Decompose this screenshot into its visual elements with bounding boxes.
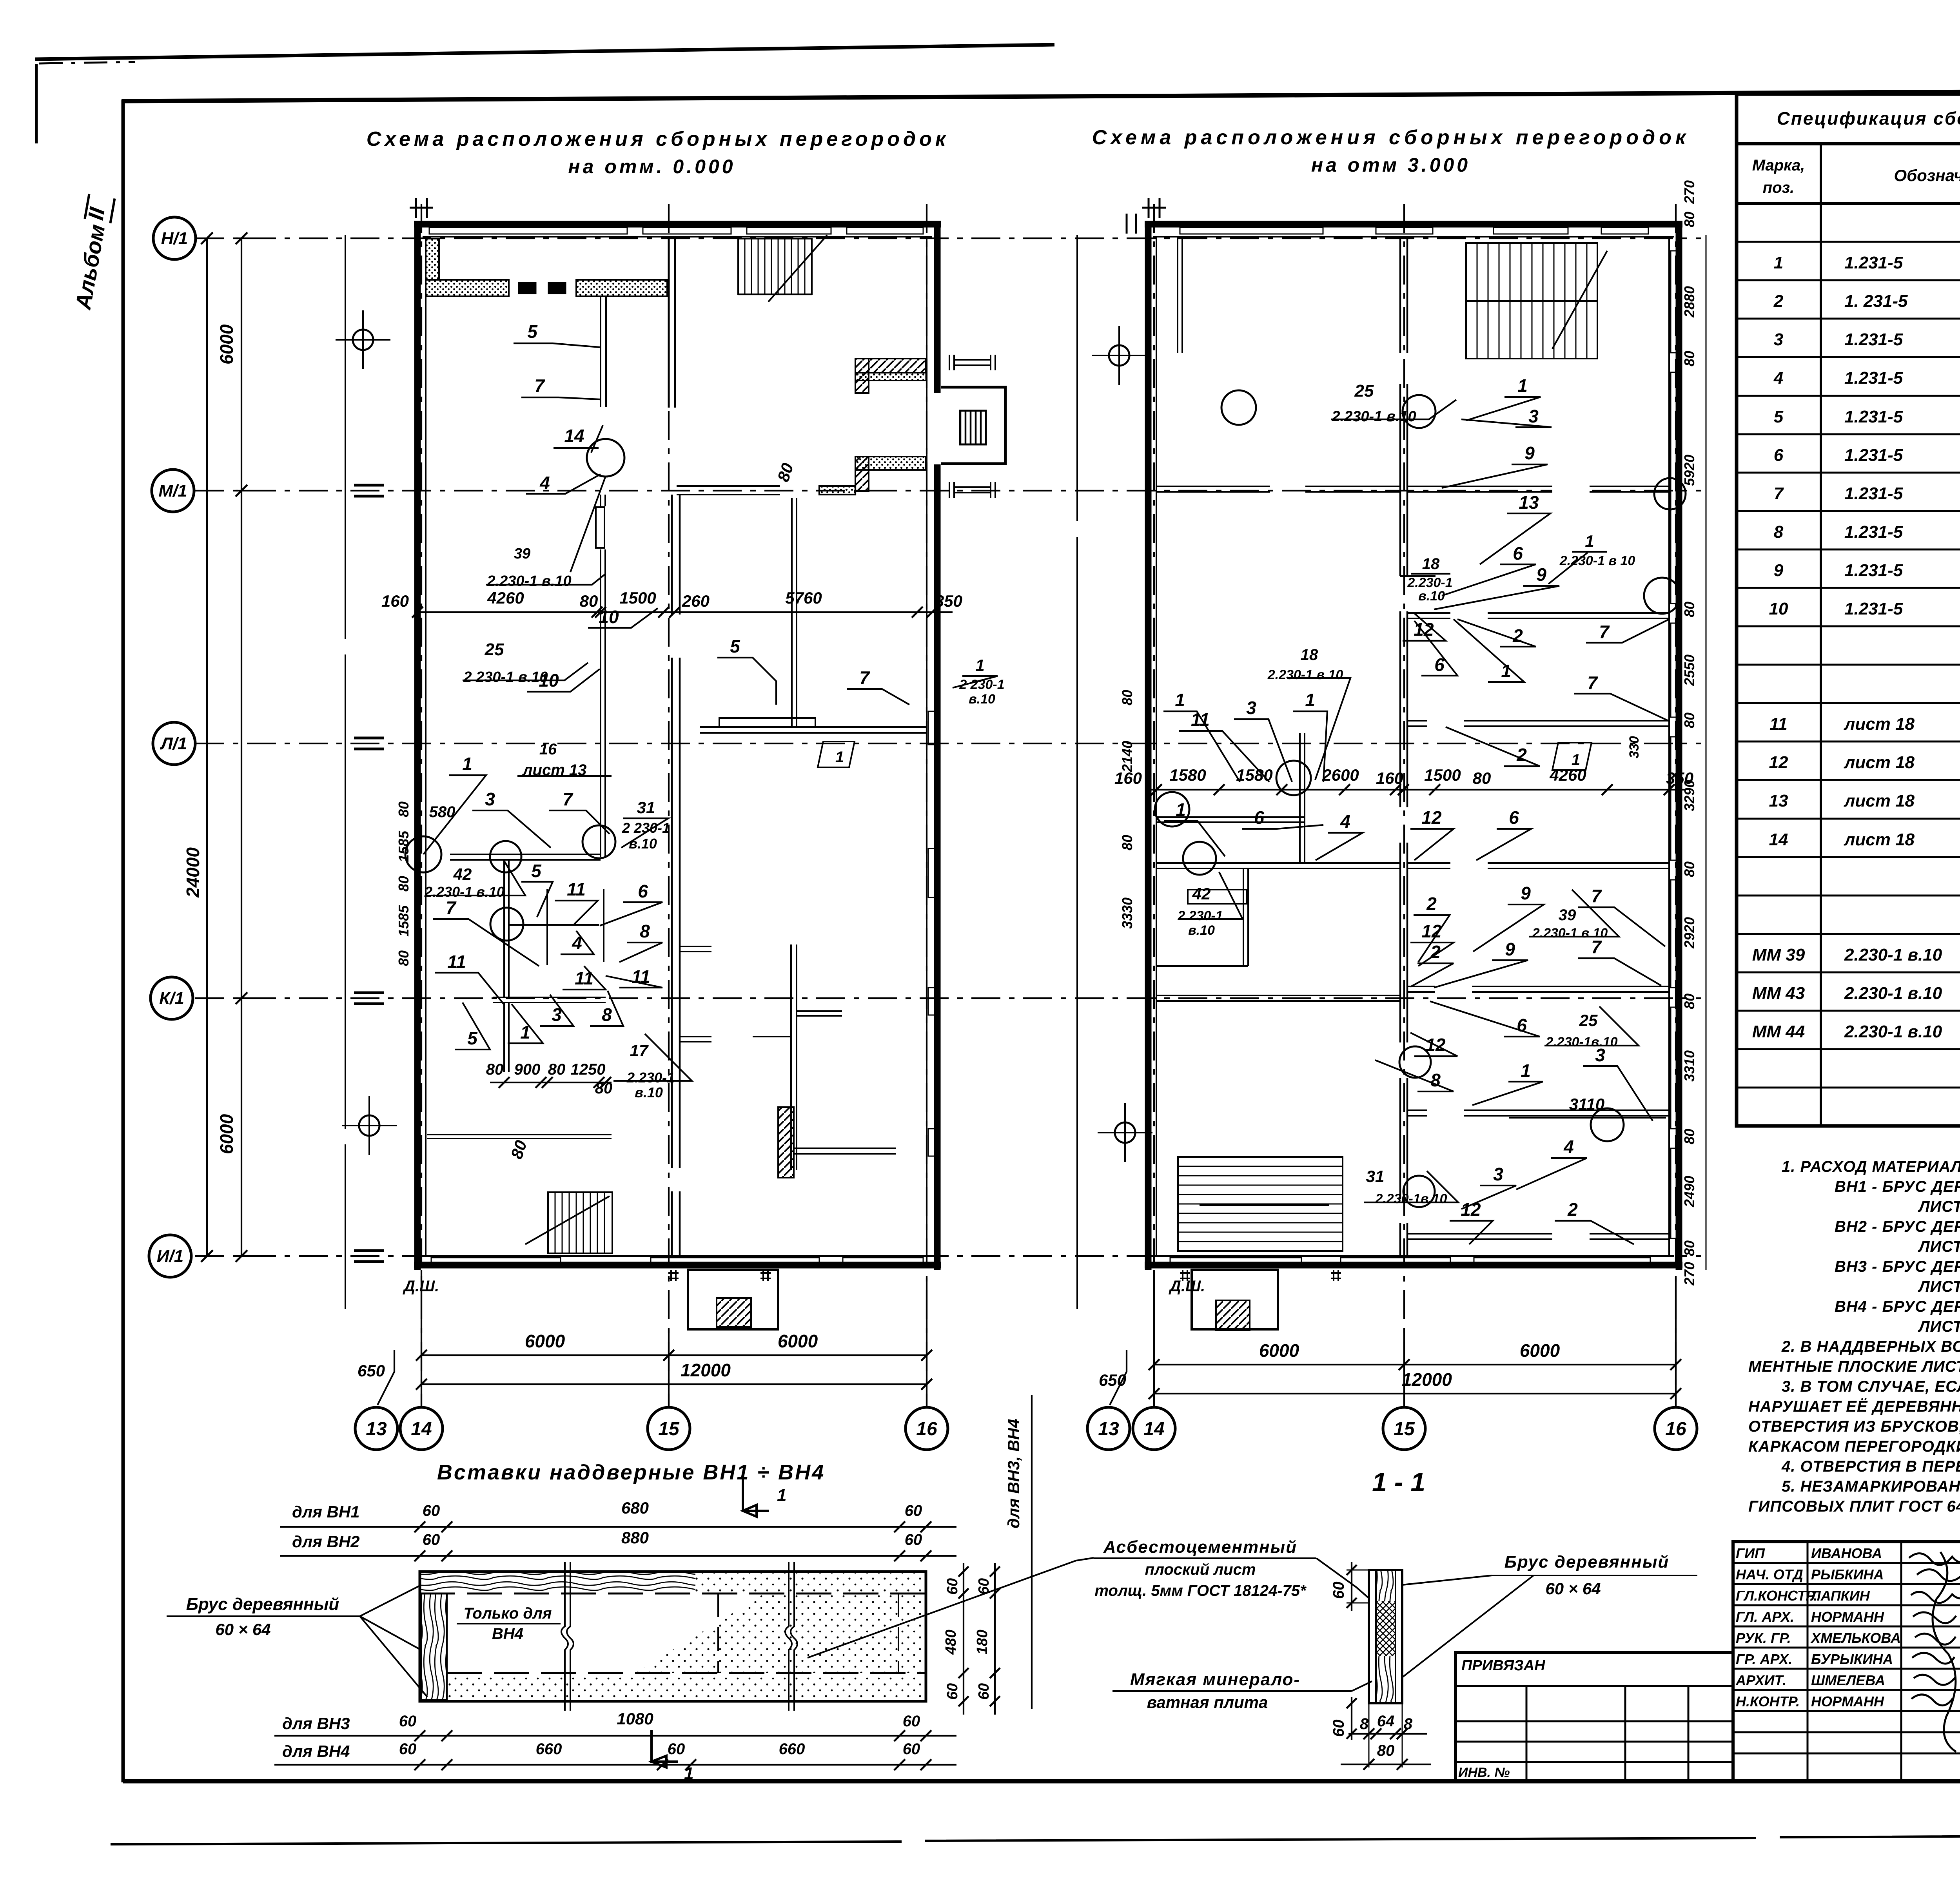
room wall v2 bbox=[1243, 868, 1248, 966]
panel inner vertical dash b bbox=[898, 1593, 899, 1673]
svg-text:14: 14 bbox=[411, 1419, 432, 1439]
svg-text:80: 80 bbox=[548, 1061, 566, 1078]
door leaf bbox=[596, 507, 604, 548]
svg-text:9: 9 bbox=[1536, 564, 1546, 585]
transverse partition bbox=[1408, 1110, 1669, 1116]
svg-text:1585: 1585 bbox=[396, 905, 412, 937]
wall dim 80 bbox=[1681, 712, 1697, 728]
axis circle И/1 bbox=[149, 1235, 191, 1277]
svg-text:ММ 44: ММ 44 bbox=[1752, 1022, 1805, 1041]
svg-text:60: 60 bbox=[944, 1578, 961, 1595]
door opening gap bbox=[1427, 719, 1464, 728]
axis wall stub bbox=[354, 485, 384, 496]
svg-text:7: 7 bbox=[563, 789, 573, 809]
svg-text:НАЧ. ОТД: НАЧ. ОТД bbox=[1736, 1566, 1803, 1583]
bottom scan edge line bbox=[111, 1834, 1960, 1844]
svg-text:Схема расположения сборных пер: Схема расположения сборных перегородок bbox=[1092, 126, 1690, 149]
dim string right plan bbox=[1149, 789, 1686, 790]
svg-text:14: 14 bbox=[1769, 830, 1788, 849]
svg-text:270: 270 bbox=[1681, 1262, 1697, 1286]
leader circle 14-4 bbox=[587, 439, 624, 477]
svg-text:Мягкая минерало-: Мягкая минерало- bbox=[1130, 1670, 1300, 1689]
stair tread bbox=[1178, 1204, 1343, 1205]
svg-text:2: 2 bbox=[1567, 1199, 1578, 1220]
right wall window bbox=[1671, 880, 1677, 988]
svg-text:ГИП: ГИП bbox=[1736, 1545, 1765, 1561]
top wall window bbox=[643, 227, 731, 234]
stair top-right bbox=[1466, 243, 1597, 359]
dim text 6000 bbox=[216, 324, 237, 364]
wall dim 2920 bbox=[1681, 917, 1697, 949]
svg-text:60: 60 bbox=[668, 1740, 685, 1758]
svg-text:1.231-5: 1.231-5 bbox=[1844, 368, 1903, 388]
wall dim 2880 bbox=[1681, 286, 1697, 318]
svg-text:ЛИСТ АСБЕСТОЦЕМЕНТНЫЙ ПЛОСКИЙ: ЛИСТ АСБЕСТОЦЕМЕНТНЫЙ ПЛОСКИЙ 800 × 600 … bbox=[1918, 1197, 1960, 1215]
strip dim line low bbox=[1351, 1697, 1352, 1740]
table row line bbox=[1737, 779, 1960, 781]
staff row line bbox=[1733, 1583, 1960, 1585]
svg-text:5. НЕЗАМАРКИРОВАННЫЕ ПЕРЕГ: 5. НЕЗАМАРКИРОВАННЫЕ ПЕРЕГОРОДКИ ТОЛЩИНО… bbox=[1782, 1477, 1960, 1495]
svg-text:лист 18: лист 18 bbox=[1844, 753, 1915, 772]
bottom wall inner bbox=[1153, 1255, 1674, 1257]
svg-text:2490: 2490 bbox=[1681, 1176, 1697, 1207]
stair tread bbox=[784, 239, 786, 294]
axis marker bbox=[336, 310, 390, 369]
svg-text:КАРКАСОМ ПЕРЕГОРОДКИ.: КАРКАСОМ ПЕРЕГОРОДКИ. bbox=[1748, 1438, 1960, 1455]
bottom wall inner bbox=[423, 1255, 932, 1257]
table row line bbox=[1737, 972, 1960, 973]
asbest leader bbox=[1316, 1558, 1369, 1598]
stair tread bbox=[751, 239, 752, 294]
table row line bbox=[1737, 472, 1960, 474]
table row line bbox=[1737, 587, 1960, 589]
axis circle К/1 bbox=[151, 977, 193, 1019]
svg-text:14: 14 bbox=[1143, 1419, 1164, 1439]
corridor wall bottom bbox=[672, 1191, 680, 1256]
right wall window bbox=[1671, 623, 1677, 717]
right wall inner bbox=[1668, 237, 1670, 1256]
svg-text:13: 13 bbox=[1769, 791, 1788, 810]
svg-text:160: 160 bbox=[381, 592, 409, 610]
section mark 1 bottom bbox=[652, 1730, 678, 1767]
svg-text:5: 5 bbox=[730, 636, 740, 656]
svg-text:16: 16 bbox=[916, 1419, 937, 1439]
left plan dim extensions bbox=[421, 1270, 422, 1407]
panel inner vertical dash a bbox=[717, 1593, 719, 1673]
strip wood bottom bbox=[1376, 1656, 1396, 1703]
svg-text:12: 12 bbox=[1461, 1199, 1481, 1220]
svg-text:МЕНТНЫЕ ПЛОСКИЕ ЛИСТЫ: МЕНТНЫЕ ПЛОСКИЕ ЛИСТЫ ГОСТ 18124 - 75* bbox=[1748, 1358, 1960, 1375]
axis line M/1 bbox=[195, 490, 1701, 491]
svg-text:8: 8 bbox=[640, 921, 650, 941]
wall dim 80 bbox=[1681, 993, 1697, 1009]
vent shaft hatch bbox=[960, 411, 986, 444]
table row line bbox=[1737, 395, 1960, 397]
svg-text:11: 11 bbox=[567, 879, 586, 899]
stair tread bbox=[1178, 1166, 1343, 1167]
svg-text:1: 1 bbox=[1305, 690, 1315, 710]
svg-text:80: 80 bbox=[1119, 835, 1135, 850]
top wall inner bbox=[1153, 236, 1674, 237]
dim text 24000 bbox=[183, 847, 203, 898]
wall right half a bbox=[700, 727, 927, 733]
svg-text:13: 13 bbox=[366, 1419, 387, 1439]
poche band top-right bbox=[576, 280, 667, 296]
leader circle bbox=[1591, 1108, 1624, 1141]
porch step hatch bbox=[717, 1298, 751, 1327]
brus right leader bbox=[1402, 1575, 1534, 1677]
svg-text:60: 60 bbox=[944, 1683, 961, 1700]
staff row line bbox=[1733, 1710, 1960, 1712]
svg-text:в.10: в.10 bbox=[1188, 923, 1215, 938]
svg-text:1.231-5: 1.231-5 bbox=[1844, 407, 1903, 426]
privyazan col line bbox=[1526, 1686, 1528, 1781]
wall stub a bbox=[680, 946, 711, 952]
svg-text:42: 42 bbox=[453, 865, 472, 883]
svg-text:60: 60 bbox=[903, 1740, 920, 1758]
wall dim 270 bbox=[1681, 180, 1697, 204]
stair tread bbox=[1543, 243, 1544, 359]
svg-text:3: 3 bbox=[1493, 1164, 1503, 1184]
svg-text:80: 80 bbox=[1473, 769, 1491, 787]
svg-text:2 230-1: 2 230-1 bbox=[959, 677, 1004, 692]
svg-text:для ВН2: для ВН2 bbox=[292, 1532, 360, 1551]
svg-text:1.231-5: 1.231-5 bbox=[1844, 599, 1903, 618]
svg-text:2 230-1: 2 230-1 bbox=[622, 820, 670, 836]
svg-text:80: 80 bbox=[1681, 712, 1697, 728]
svg-text:лист 18: лист 18 bbox=[1844, 830, 1915, 849]
svg-text:12: 12 bbox=[1769, 753, 1788, 772]
svg-text:3310: 3310 bbox=[1681, 1050, 1697, 1082]
svg-text:Только для: Только для bbox=[464, 1605, 552, 1622]
svg-text:2880: 2880 bbox=[1681, 286, 1697, 318]
svg-text:6000: 6000 bbox=[216, 324, 237, 364]
table row line bbox=[1737, 549, 1960, 551]
wall dim ext line bbox=[1706, 235, 1707, 1270]
right wall bbox=[934, 222, 941, 393]
partition h3 bbox=[493, 997, 606, 1002]
central wall b bbox=[1406, 237, 1408, 1256]
svg-text:160: 160 bbox=[1376, 769, 1403, 787]
partition v2 bbox=[601, 495, 605, 857]
leader circle a bbox=[405, 836, 441, 872]
svg-text:К/1: К/1 bbox=[159, 989, 184, 1008]
svg-text:900: 900 bbox=[514, 1061, 541, 1078]
svg-text:поз.: поз. bbox=[1763, 179, 1794, 196]
brus leaders bbox=[360, 1586, 427, 1697]
svg-text:11: 11 bbox=[1769, 714, 1788, 734]
bottom axis circle 15 bbox=[648, 1407, 690, 1450]
svg-text:2: 2 bbox=[1516, 745, 1527, 765]
svg-text:Н/1: Н/1 bbox=[161, 229, 188, 248]
left dim 3330 bbox=[1119, 897, 1135, 929]
poche band dash bbox=[518, 282, 536, 294]
svg-text:60: 60 bbox=[399, 1740, 417, 1758]
staff row line bbox=[1733, 1731, 1960, 1733]
svg-text:5: 5 bbox=[1774, 407, 1784, 426]
svg-text:650: 650 bbox=[358, 1361, 385, 1380]
svg-text:ПРИВЯЗАН: ПРИВЯЗАН bbox=[1461, 1657, 1546, 1674]
svg-text:60: 60 bbox=[423, 1502, 440, 1519]
svg-text:25: 25 bbox=[485, 640, 504, 659]
svg-text:4. ОТВЕРСТИЯ В ПЕРЕГОРОДК: 4. ОТВЕРСТИЯ В ПЕРЕГОРОДКАХ СМ. ЛИСТ 6. bbox=[1781, 1458, 1960, 1475]
svg-text:660: 660 bbox=[779, 1740, 805, 1758]
svg-text:4260: 4260 bbox=[487, 589, 524, 607]
table row line bbox=[1737, 510, 1960, 512]
leader circle b bbox=[490, 841, 521, 872]
stair arrow bbox=[738, 235, 827, 302]
svg-text:ММ 43: ММ 43 bbox=[1752, 984, 1805, 1003]
axis line K/1 bbox=[195, 997, 1701, 999]
axis top fork 14r bbox=[1142, 198, 1166, 218]
svg-text:толщ. 5мм ГОСТ 18124-75*: толщ. 5мм ГОСТ 18124-75* bbox=[1094, 1582, 1307, 1599]
transverse partition bbox=[1408, 986, 1669, 992]
wall dim 80 bbox=[1681, 861, 1697, 877]
partition h2 bbox=[509, 924, 599, 926]
svg-text:13: 13 bbox=[1519, 492, 1539, 513]
svg-text:ГЛ. АРХ.: ГЛ. АРХ. bbox=[1736, 1609, 1794, 1625]
svg-text:1: 1 bbox=[1517, 375, 1528, 396]
svg-text:7: 7 bbox=[859, 667, 870, 688]
dim 80 900 80 1250 80 row bbox=[486, 1061, 613, 1097]
axis circle Н/1 bbox=[153, 217, 196, 259]
stair tread bbox=[1564, 243, 1566, 359]
svg-text:Д.Ш.: Д.Ш. bbox=[403, 1278, 439, 1295]
table row line bbox=[1737, 818, 1960, 820]
svg-text:в.10: в.10 bbox=[629, 836, 657, 852]
wall dim 80 bbox=[1681, 602, 1697, 617]
left dim 80 bbox=[1119, 690, 1135, 705]
room wall h bbox=[1156, 817, 1305, 822]
sheet frame left bbox=[122, 100, 125, 1782]
svg-text:480: 480 bbox=[943, 1630, 959, 1655]
bottom axis circle 14 bbox=[1133, 1407, 1175, 1450]
svg-text:2.230-1 в 10: 2.230-1 в 10 bbox=[1559, 553, 1635, 568]
room wall h2 bbox=[1156, 863, 1400, 868]
top wall window bbox=[847, 227, 923, 234]
partition top-left v bbox=[1178, 237, 1182, 353]
staff table outline bbox=[1733, 1542, 1960, 1781]
top wall inner bbox=[423, 236, 932, 237]
table column line bbox=[1820, 144, 1822, 1126]
fachwerk line left bbox=[345, 235, 346, 1309]
leader circle c bbox=[490, 908, 523, 941]
right wall window bbox=[1671, 251, 1677, 353]
porch outline bbox=[688, 1270, 778, 1329]
axis top fork 14 bbox=[410, 198, 433, 218]
svg-text:ватная плита: ватная плита bbox=[1147, 1693, 1268, 1711]
wall dim 80 bbox=[1681, 1129, 1697, 1144]
title block (stamp) bbox=[1455, 1542, 1960, 1811]
svg-text:Брус деревянный: Брус деревянный bbox=[1504, 1552, 1670, 1572]
right plan dim 12000 bbox=[1154, 1393, 1676, 1394]
svg-text:25: 25 bbox=[1354, 381, 1374, 401]
svg-text:330: 330 bbox=[1627, 736, 1642, 758]
svg-text:6: 6 bbox=[1254, 807, 1264, 828]
panel bottom dotted band bbox=[447, 1674, 925, 1700]
rot 330 bbox=[1627, 736, 1642, 758]
svg-text:Схема расположения сборных пер: Схема расположения сборных перегородок bbox=[367, 128, 949, 150]
svg-text:11: 11 bbox=[575, 968, 593, 988]
svg-text:БУРЫКИНА: БУРЫКИНА bbox=[1811, 1651, 1893, 1667]
svg-text:18: 18 bbox=[1422, 555, 1440, 573]
svg-text:4: 4 bbox=[1773, 368, 1783, 388]
partition v3 bbox=[504, 860, 509, 997]
bottom axis circle 14 bbox=[400, 1407, 443, 1450]
table row line bbox=[1737, 741, 1960, 743]
left dim line 6000s bbox=[241, 238, 242, 1256]
svg-text:3: 3 bbox=[1774, 330, 1783, 349]
svg-text:1500: 1500 bbox=[619, 589, 656, 607]
svg-text:ВН2 - БРУС ДЕРЕВЯННЫЙ 60 × 64: ВН2 - БРУС ДЕРЕВЯННЫЙ 60 × 64 - 3.0 М.П. bbox=[1835, 1217, 1960, 1235]
svg-text:3: 3 bbox=[1246, 698, 1256, 718]
svg-text:ВН4: ВН4 bbox=[492, 1625, 523, 1642]
svg-text:1.231-5: 1.231-5 bbox=[1844, 253, 1903, 272]
stair tread bbox=[1510, 243, 1511, 359]
svg-text:13: 13 bbox=[1098, 1419, 1119, 1439]
leader circle bbox=[1403, 395, 1436, 428]
panel outline bbox=[420, 1572, 926, 1701]
rot 80 label2 bbox=[774, 461, 797, 484]
panel bottom band line bbox=[447, 1672, 926, 1674]
privyazan row line bbox=[1455, 1761, 1733, 1763]
transverse partition bbox=[1408, 1234, 1669, 1239]
porch outline right bbox=[1192, 1270, 1278, 1329]
stair tread bbox=[1178, 1185, 1343, 1186]
svg-text:ЛИСТ АСБЕСТОЦЕМЕНТНЫЙ ПЛОСКИЙ: ЛИСТ АСБЕСТОЦЕМЕНТНЫЙ ПЛОСКИЙ 1500 × 300… bbox=[1918, 1317, 1960, 1335]
svg-text:4: 4 bbox=[1563, 1137, 1574, 1157]
svg-text:6: 6 bbox=[1509, 807, 1519, 828]
right wall window bbox=[928, 711, 935, 745]
svg-text:5760: 5760 bbox=[785, 589, 822, 607]
wall dim 80 bbox=[1681, 351, 1697, 366]
tambour wall upper bbox=[855, 359, 926, 373]
svg-text:10: 10 bbox=[1769, 599, 1788, 618]
privyazan col line bbox=[1688, 1686, 1690, 1781]
svg-text:80: 80 bbox=[1681, 351, 1697, 366]
left wall inner bbox=[425, 237, 426, 1256]
svg-text:880: 880 bbox=[621, 1528, 649, 1547]
svg-text:ЛИСТ АСБЕСТОЦЕМЕНТНЫЙ ПЛОСКИ: ЛИСТ АСБЕСТОЦЕМЕНТНЫЙ ПЛОСКИЙ 1000 × 600… bbox=[1918, 1237, 1960, 1255]
svg-text:ЛАПКИН: ЛАПКИН bbox=[1810, 1588, 1870, 1604]
svg-text:ГР. АРХ.: ГР. АРХ. bbox=[1736, 1651, 1792, 1667]
svg-text:лист 18: лист 18 bbox=[1844, 791, 1915, 810]
svg-text:60: 60 bbox=[1330, 1582, 1347, 1599]
svg-text:НАРУШАЕТ ЕЁ ДЕРЕВЯННУЮ ОБВЯЗ: НАРУШАЕТ ЕЁ ДЕРЕВЯННУЮ ОБВЯЗКУ, ВЫПОЛНИТ… bbox=[1748, 1398, 1960, 1415]
svg-text:Спецификация сборных перегород: Спецификация сборных перегородок из пане… bbox=[1777, 108, 1960, 129]
svg-text:60: 60 bbox=[976, 1578, 992, 1595]
svg-text:80: 80 bbox=[774, 461, 797, 484]
svg-text:6: 6 bbox=[1774, 446, 1784, 465]
svg-text:1.231-5: 1.231-5 bbox=[1844, 522, 1903, 542]
table row line bbox=[1737, 318, 1960, 320]
axis line 15 right plan bbox=[1403, 204, 1405, 1406]
bottom axis circle 16 bbox=[1655, 1407, 1697, 1450]
partition h1 bbox=[450, 854, 601, 860]
wall stub b bbox=[680, 1037, 711, 1042]
svg-text:3: 3 bbox=[1528, 406, 1539, 426]
svg-text:1.231-5: 1.231-5 bbox=[1844, 484, 1903, 503]
leader circle bbox=[1403, 1176, 1435, 1207]
stair tread bbox=[1521, 243, 1522, 359]
staff col name bbox=[1807, 1542, 1809, 1781]
top-left dash-dot fragment bbox=[39, 62, 135, 63]
svg-text:для ВН4: для ВН4 bbox=[282, 1742, 350, 1760]
axis line L/1 bbox=[195, 743, 1701, 744]
svg-text:Асбестоцементный: Асбестоцементный bbox=[1103, 1537, 1297, 1557]
svg-text:680: 680 bbox=[621, 1499, 649, 1517]
svg-text:лист 18: лист 18 bbox=[1844, 714, 1915, 734]
svg-text:2.230-1 в.10: 2.230-1 в.10 bbox=[1844, 1022, 1942, 1041]
porch tick a bbox=[668, 1270, 679, 1281]
leader circle d bbox=[583, 825, 615, 858]
wall dim 2550 bbox=[1681, 654, 1697, 686]
svg-text:25: 25 bbox=[1579, 1011, 1598, 1030]
stair tread bbox=[764, 239, 766, 294]
axis line 16 right plan bbox=[1675, 204, 1677, 1406]
svg-text:10: 10 bbox=[599, 607, 619, 627]
strip layer line a bbox=[1375, 1570, 1377, 1703]
stair tread bbox=[555, 1192, 556, 1253]
svg-text:12: 12 bbox=[1421, 807, 1442, 828]
stair tread bbox=[1477, 243, 1478, 359]
bottom wall outer bbox=[1145, 1262, 1682, 1269]
svg-text:2.230-1: 2.230-1 bbox=[626, 1070, 675, 1086]
svg-text:5: 5 bbox=[467, 1028, 478, 1048]
right floor plan (otm 3.000) bbox=[1114, 180, 1706, 1330]
svg-text:9: 9 bbox=[1524, 443, 1535, 463]
right wall window bbox=[928, 988, 935, 1015]
svg-text:1: 1 bbox=[1585, 532, 1594, 550]
wall stub d bbox=[753, 1036, 791, 1037]
svg-text:1: 1 bbox=[1774, 253, 1783, 272]
wall stub c bbox=[797, 1011, 842, 1016]
svg-text:7: 7 bbox=[1599, 622, 1610, 642]
notes text block bbox=[1748, 1158, 1960, 1515]
stair tread bbox=[1178, 1241, 1343, 1242]
svg-text:4: 4 bbox=[539, 473, 550, 493]
svg-text:80: 80 bbox=[1681, 212, 1697, 227]
svg-text:1: 1 bbox=[835, 749, 844, 766]
svg-text:М/1: М/1 bbox=[158, 481, 187, 500]
table title row line bbox=[1737, 142, 1960, 145]
stair tread bbox=[804, 239, 806, 294]
svg-text:80: 80 bbox=[1681, 1240, 1697, 1256]
axis 13 elbow right bbox=[1110, 1350, 1127, 1405]
fachwerk line right bbox=[1076, 235, 1078, 1309]
svg-text:Обозначение: Обозначение bbox=[1894, 166, 1960, 185]
svg-text:для ВН3: для ВН3 bbox=[282, 1714, 350, 1733]
section mark 1 top bbox=[743, 1478, 769, 1517]
stair tread bbox=[758, 239, 759, 294]
table row line bbox=[1737, 241, 1960, 243]
door opening gap bbox=[1450, 611, 1488, 620]
dim text 6000 bbox=[216, 1114, 237, 1154]
svg-text:12000: 12000 bbox=[1402, 1369, 1452, 1390]
svg-text:ЛИСТ АСБЕСТОЦЕМЕНТНЫЙ ПЛОСКИЙ: ЛИСТ АСБЕСТОЦЕМЕНТНЫЙ ПЛОСКИЙ 1200 × 300… bbox=[1918, 1277, 1960, 1295]
vn34 ext line bbox=[1031, 1395, 1033, 1709]
leader circle bbox=[1221, 390, 1256, 425]
door flag 1 bbox=[818, 741, 855, 767]
svg-text:260: 260 bbox=[682, 592, 710, 610]
top wall window bbox=[1601, 227, 1648, 234]
svg-text:80: 80 bbox=[1681, 1129, 1697, 1144]
door opening gap bbox=[1552, 485, 1590, 493]
svg-text:60: 60 bbox=[905, 1502, 922, 1519]
sheet frame top bbox=[122, 89, 1960, 101]
svg-text:НОРМАНН: НОРМАНН bbox=[1811, 1693, 1884, 1709]
rot 80 label bbox=[507, 1138, 530, 1161]
